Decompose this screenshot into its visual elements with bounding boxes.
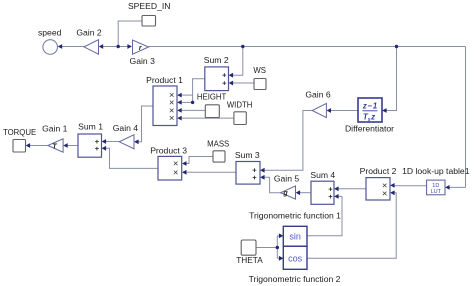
svg-text:MASS: MASS (207, 139, 229, 148)
svg-text:Differentiator: Differentiator (345, 123, 394, 133)
svg-text:×: × (382, 188, 388, 199)
svg-text:Gain 4: Gain 4 (113, 123, 139, 133)
svg-text:×: × (173, 167, 179, 178)
svg-text:HEIGHT: HEIGHT (197, 93, 227, 102)
svg-text:Product 1: Product 1 (146, 75, 183, 85)
svg-text:Gain 3: Gain 3 (130, 56, 156, 66)
svg-text:Sum 3: Sum 3 (235, 150, 260, 160)
svg-text:sin: sin (289, 231, 301, 241)
svg-text:Gain 6: Gain 6 (305, 90, 331, 100)
svg-text:THETA: THETA (236, 255, 263, 265)
svg-text:WIDTH: WIDTH (227, 100, 253, 109)
svg-text:LUT: LUT (431, 189, 442, 195)
svg-text:+: + (222, 79, 227, 88)
svg-text:Gain 1: Gain 1 (42, 124, 68, 134)
svg-text:Sum 2: Sum 2 (204, 55, 229, 65)
svg-text:z − 1: z − 1 (362, 102, 378, 111)
svg-text:Gain 2: Gain 2 (76, 27, 102, 37)
svg-text:+: + (328, 192, 333, 201)
svg-text:SPEED_IN: SPEED_IN (128, 1, 171, 11)
svg-text:g: g (282, 190, 288, 197)
svg-text:Trigonometric function 1: Trigonometric function 1 (249, 210, 341, 220)
svg-text:+: + (95, 144, 100, 153)
svg-text:×: × (169, 113, 175, 124)
svg-text:Gain 5: Gain 5 (274, 174, 300, 184)
svg-text:Product 2: Product 2 (360, 166, 397, 176)
svg-text:T: T (52, 144, 57, 151)
svg-text:Product 3: Product 3 (150, 145, 187, 155)
svg-text:Sum 1: Sum 1 (78, 122, 103, 132)
svg-text:TORQUE: TORQUE (3, 128, 36, 137)
svg-text:Sum 4: Sum 4 (310, 170, 335, 180)
svg-text:cos: cos (288, 253, 303, 263)
svg-text:Trigonometric function 2: Trigonometric function 2 (249, 274, 341, 284)
svg-text:WS: WS (253, 66, 266, 75)
svg-text:1D look-up table1: 1D look-up table1 (402, 166, 470, 176)
svg-text:speed: speed (38, 28, 62, 38)
svg-text:+: + (252, 173, 257, 182)
